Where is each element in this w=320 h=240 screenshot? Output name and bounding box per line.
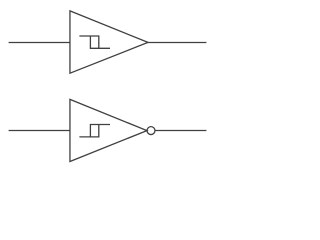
hysteresis symbol inside U1 xyxy=(79,36,110,48)
wire: input net to U2 xyxy=(9,130,70,132)
wire: input net to U1 xyxy=(9,42,70,44)
hysteresis symbol inside U2 xyxy=(79,125,110,137)
wire: U1 output net xyxy=(147,42,207,44)
op-amp U1 (Schmitt trigger buffer) triangle xyxy=(70,11,148,73)
op-amp U2 (Schmitt trigger inverter) triangle xyxy=(70,99,147,161)
wire: U2 output net xyxy=(155,130,207,132)
inversion bubble at U2 output xyxy=(147,127,155,135)
